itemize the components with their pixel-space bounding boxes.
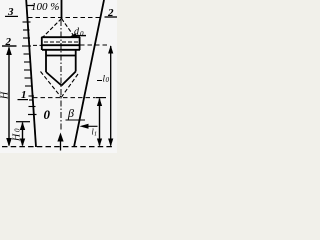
- beta leader arrow head: [80, 124, 89, 129]
- scale ticks: [22, 22, 36, 107]
- float level dashes left: [33, 44, 42, 46]
- l0 dim arrow down: [97, 139, 102, 147]
- base reference dashed line: [2, 146, 115, 148]
- flow arrow line: [60, 135, 62, 151]
- label 1 underline: [18, 99, 29, 101]
- float tail hidden edge right: [62, 74, 79, 97]
- beta leader line: [87, 125, 98, 127]
- tube right wall: [74, 0, 104, 147]
- svg-text:3: 3: [7, 6, 14, 18]
- H0 dimension top tick: [16, 121, 30, 123]
- float top cone hidden edge left: [43, 19, 62, 38]
- float rim hidden line: [44, 41, 78, 43]
- beta angle tick across wall: [66, 119, 86, 121]
- float level dashes right: [80, 44, 110, 46]
- float top cone hidden edge right: [62, 19, 75, 38]
- float rim left edge: [41, 37, 43, 50]
- svg-text:0: 0: [14, 128, 22, 132]
- svg-text:2: 2: [107, 7, 114, 19]
- H dim arrow down: [6, 138, 12, 147]
- label 3 underline: [5, 15, 18, 17]
- H dim arrow up: [6, 46, 12, 55]
- H0 dimension line: [22, 123, 24, 146]
- flow arrow head: [57, 133, 63, 142]
- svg-text:0: 0: [80, 30, 84, 38]
- background: [0, 0, 117, 153]
- d0 leader arrow head: [69, 33, 77, 37]
- l dim arrow down: [108, 139, 113, 147]
- svg-text:H: H: [0, 91, 11, 100]
- float body right edge: [75, 50, 77, 72]
- float level line left bar (H top tick / label 2 underline): [2, 45, 17, 47]
- H0 dim arrow down: [20, 139, 25, 147]
- H dimension line: [8, 48, 10, 146]
- svg-text:1: 1: [21, 89, 27, 101]
- dash before l0: [97, 80, 102, 82]
- float bottom cone left: [46, 72, 62, 86]
- float max-diameter reading edge: [42, 44, 81, 46]
- scale tick 100%: [26, 5, 34, 7]
- svg-text:1: 1: [94, 132, 97, 138]
- svg-text:H: H: [12, 133, 23, 142]
- tube left wall with scale line: [26, 0, 36, 147]
- svg-text:2: 2: [5, 36, 12, 48]
- label 2 underline (right): [105, 16, 118, 18]
- float body inner line: [46, 55, 76, 57]
- l dim arrow up: [108, 45, 113, 53]
- float bottom cone right: [62, 72, 76, 86]
- float rim bottom edge: [42, 49, 80, 51]
- float body left edge: [45, 50, 47, 72]
- l0 dimension line (inner right): [99, 99, 101, 146]
- svg-text:0: 0: [106, 76, 110, 84]
- d0 label underline: [74, 35, 86, 37]
- svg-text:0: 0: [44, 107, 51, 122]
- center line dash-dot: [60, 20, 62, 131]
- l0 dimension top tick: [96, 97, 107, 99]
- float rim right edge: [79, 37, 81, 50]
- float rim top edge: [42, 36, 81, 38]
- l dimension line (outer right): [110, 46, 112, 146]
- float stem: [61, 0, 63, 19]
- 100% level dashed line: [28, 17, 101, 19]
- svg-text:β: β: [67, 106, 74, 120]
- H0 dim arrow up: [20, 122, 25, 130]
- l0 dim arrow up: [97, 98, 102, 106]
- svg-text:100 %: 100 %: [31, 1, 59, 13]
- scale zero tick: [28, 114, 37, 116]
- float bottom tip level dashed line: [33, 97, 95, 99]
- d0 leader: [72, 35, 76, 37]
- float tail hidden edge left: [41, 72, 62, 98]
